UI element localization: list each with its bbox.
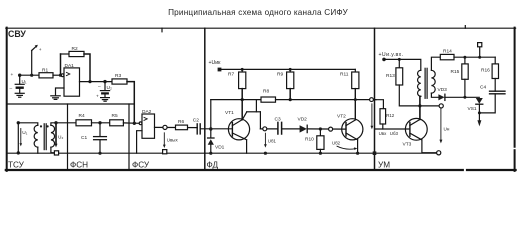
wire collector row [211, 99, 261, 101]
capacitor C1 [99, 123, 101, 136]
collector jog to C3 wire [242, 112, 246, 120]
DA2 second input to bus [137, 131, 142, 154]
resistor R1 [39, 73, 53, 78]
svg-text:VS1: VS1 [468, 106, 477, 112]
svg-text:–: – [10, 87, 13, 92]
svg-text:R10: R10 [305, 137, 314, 143]
voltage arrow Uvyh [163, 133, 165, 145]
diode VD1 [208, 137, 214, 139]
wire R4 to R5 [92, 122, 110, 124]
svg-text:U₂: U₂ [58, 135, 63, 141]
resistor R14 [440, 54, 454, 59]
svg-text:VD1: VD1 [215, 145, 225, 151]
resistor R12 [376, 100, 383, 109]
node output donut [439, 104, 443, 108]
wire DA1 output [80, 81, 113, 83]
transformer T2 primary winding [418, 70, 421, 96]
svg-text:C3: C3 [275, 117, 281, 123]
polarity dots T1 [40, 125, 42, 127]
noninverting input wire to ground [56, 88, 65, 95]
svg-text:ТСУ: ТСУ [8, 161, 25, 170]
transistor VT3 [405, 118, 427, 140]
frame bottom border [6, 169, 463, 171]
ground under U2 [104, 95, 106, 98]
C4 lead to VS1 cathode [479, 94, 495, 113]
svg-text:+: + [96, 95, 99, 100]
svg-text:Принципиальная схема одного ка: Принципиальная схема одного канала СИФУ [168, 8, 348, 17]
svg-text:VT2: VT2 [337, 114, 346, 120]
node Ub1 [263, 127, 267, 131]
setpoint arrow + [32, 46, 37, 51]
feedback wire left [60, 54, 62, 75]
junction square on bus at divider [373, 151, 377, 155]
svg-text:R13: R13 [386, 73, 395, 79]
wire C2 to VT1 base [200, 128, 232, 130]
svg-text:СВУ: СВУ [8, 29, 26, 39]
svg-text:R7: R7 [228, 72, 234, 78]
divider under SVU block [7, 103, 135, 105]
svg-text:U₁: U₁ [22, 130, 27, 136]
transistor VT2 [342, 119, 363, 140]
feedback wire right [84, 54, 90, 82]
wire VT1 to C3 [260, 128, 277, 130]
node FSU output [163, 125, 167, 129]
transformer T1 primary winding [18, 123, 38, 126]
diode VD2 [300, 125, 307, 132]
capacitor C2 [196, 124, 198, 134]
tick mark top border right [464, 26, 466, 29]
source U1 battery [19, 75, 21, 83]
svg-text:R4: R4 [79, 113, 85, 119]
svg-text:Uб2: Uб2 [332, 141, 341, 146]
wire R1 to DA1 [53, 74, 61, 76]
svg-text:Uб1: Uб1 [268, 139, 277, 144]
wire R3 down to DA2 input [127, 82, 134, 124]
resistor R4 [76, 120, 92, 126]
svg-text:DA2: DA2 [142, 109, 152, 115]
capacitor C3 [277, 122, 279, 134]
resistor R9 [289, 69, 291, 72]
voltage arrow Un [440, 108, 442, 139]
svg-text:ФД: ФД [207, 161, 219, 170]
svg-text:R12: R12 [386, 113, 395, 118]
VT3 emitter to common donut [422, 140, 437, 153]
svg-text:R5: R5 [112, 113, 118, 119]
wire C3 to VD2 [282, 128, 300, 130]
svg-text:VT3: VT3 [403, 142, 412, 148]
svg-text:DA1: DA1 [65, 63, 75, 69]
resistor R8 [261, 97, 276, 102]
wire down to VD1 [210, 100, 212, 138]
svg-text:R8: R8 [263, 89, 269, 95]
svg-text:–: – [98, 85, 101, 90]
wire to setpoint arrow [31, 51, 33, 76]
wire VD3 to VS1 [445, 96, 479, 98]
tick mark top border left [161, 28, 163, 32]
node Ub2 [329, 127, 333, 131]
svg-text:VD3: VD3 [438, 87, 448, 93]
op-amp DA2 [139, 122, 142, 125]
svg-text:VD2: VD2 [298, 117, 308, 123]
frame top border [6, 27, 516, 29]
resistor R5 [110, 120, 124, 126]
VT3 collector to T2 primary [419, 96, 421, 119]
voltage arrow U1 primary [20, 129, 22, 144]
frame left border [6, 28, 8, 171]
divider TSU/FSN [67, 104, 69, 169]
node A input [18, 74, 21, 77]
thyristor VS1 [476, 98, 483, 104]
frame right border [514, 28, 516, 147]
base wire VT3 [375, 128, 410, 130]
wire DA2 output [155, 126, 198, 128]
resistor R16 [494, 57, 496, 64]
svg-text:Uн: Uн [444, 127, 450, 132]
source U2 battery [104, 82, 106, 90]
resistor R15 [464, 57, 466, 64]
svg-text:R16: R16 [481, 67, 490, 73]
transistor VT1 [228, 119, 249, 140]
svg-text:R2: R2 [72, 46, 78, 52]
ground under U1 [19, 89, 21, 93]
resistor R2 [69, 51, 84, 56]
node FD output [370, 98, 374, 102]
capacitor C4 [490, 90, 506, 92]
svg-text:Uб3: Uб3 [390, 131, 399, 136]
transformer T2 core [424, 68, 426, 98]
voltage arrow Ub1 [264, 133, 266, 144]
svg-text:C4: C4 [480, 85, 486, 91]
transformer T2 secondary winding [431, 70, 435, 93]
svg-text:R14: R14 [443, 48, 452, 54]
op-amp DA1 [61, 74, 64, 77]
svg-text:R1: R1 [42, 67, 48, 73]
wire VD2 to VT2 base [307, 128, 346, 130]
svg-text:+Uик: +Uик [209, 60, 222, 66]
svg-text:+: + [11, 73, 14, 78]
supply wire to T2 primary [384, 59, 421, 70]
divider FD/UM [374, 28, 376, 169]
divider FSU/FD [204, 28, 206, 169]
terminal square Uvyh [163, 150, 167, 154]
svg-text:ФСУ: ФСУ [132, 161, 150, 170]
svg-text:+: + [39, 48, 42, 53]
svg-text:R6: R6 [178, 119, 184, 125]
supply rail [220, 68, 356, 70]
ground DA1 [51, 95, 60, 97]
transformer T1 core [43, 124, 45, 150]
T1 secondary bottom to terminal [51, 147, 55, 153]
resistor R11 [354, 69, 356, 72]
svg-text:Uвх: Uвх [379, 131, 388, 136]
divider FSN/FSU [128, 104, 130, 169]
voltage arrow U2 secondary [55, 125, 57, 144]
transformer T1 primary terminals [17, 121, 20, 124]
svg-text:VT1: VT1 [225, 110, 234, 116]
resistor R13 [398, 59, 400, 67]
svg-text:Uвых: Uвых [167, 138, 179, 143]
ground bus / block boundary [7, 152, 437, 154]
svg-text:ФСН: ФСН [70, 161, 88, 170]
diode VD3 [438, 94, 444, 100]
svg-text:+Uи.у.вх.: +Uи.у.вх. [379, 52, 404, 58]
transformer T1 secondary winding [51, 125, 55, 147]
resistor R10 [319, 129, 321, 136]
svg-text:C2: C2 [193, 117, 199, 123]
svg-text:R11: R11 [340, 72, 349, 78]
VS1 output arrow [478, 104, 480, 120]
svg-text:УМ: УМ [378, 161, 390, 170]
svg-text:U₁: U₁ [22, 79, 27, 85]
svg-text:R15: R15 [451, 69, 460, 75]
R13 lead down and right to output node [399, 85, 441, 106]
svg-text:R9: R9 [277, 72, 283, 78]
resistor R6 [176, 125, 188, 130]
svg-text:C1: C1 [81, 135, 87, 141]
terminal square top [479, 47, 481, 57]
node summing junction [133, 122, 136, 125]
resistor R3 [112, 79, 127, 84]
input arrow Uvh [371, 104, 373, 126]
wire R5 to DA2 [123, 122, 139, 124]
svg-text:R3: R3 [115, 73, 121, 79]
wire input node to R1 [20, 74, 39, 76]
wire R14 right [454, 56, 495, 58]
resistor R7 [241, 69, 243, 72]
